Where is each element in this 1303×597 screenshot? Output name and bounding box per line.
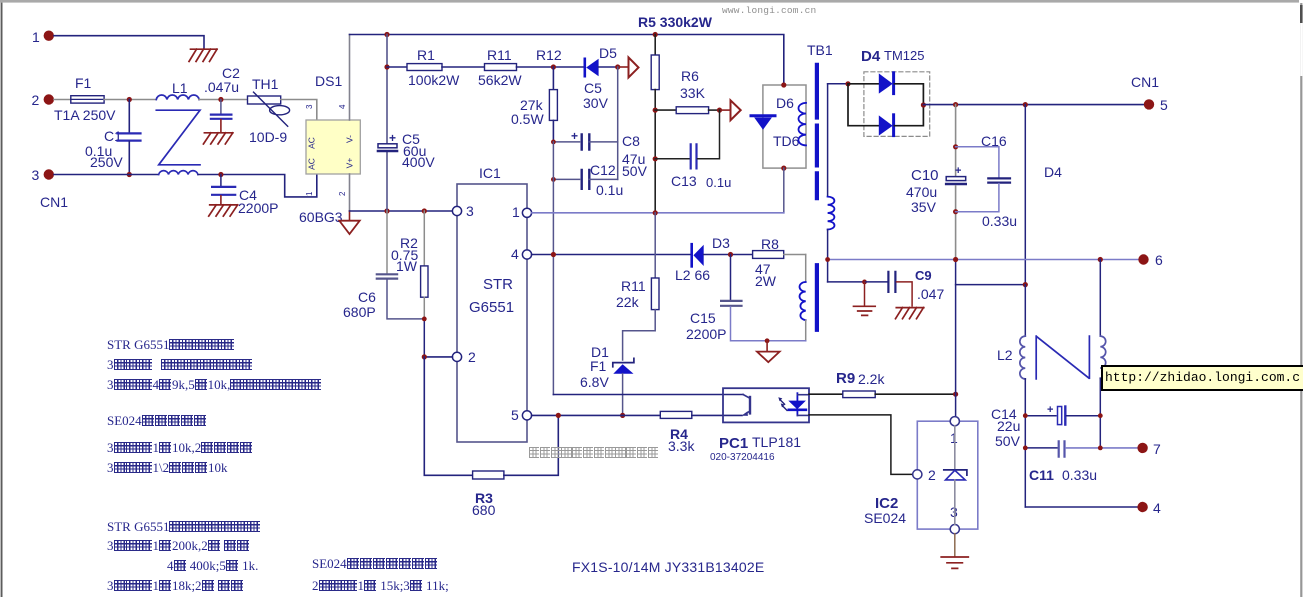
svg-text:D5: D5: [599, 45, 617, 61]
node junction pin4 row / R12 line: [551, 252, 556, 257]
svg-text:2200P: 2200P: [238, 200, 278, 216]
diode D4 bottom: [848, 84, 879, 126]
node junction R6 branch: [653, 108, 658, 113]
wire R1 to R11: [442, 66, 485, 68]
L2 core N symbol: [1036, 336, 1089, 379]
svg-text:R11: R11: [487, 47, 512, 63]
wire pin1 row of IC1: [532, 212, 784, 214]
note SE024 pin resistance title: [107, 413, 207, 429]
wire D5-C8-C12 right vertical: [617, 67, 619, 179]
node junction top rail / C5 line: [384, 32, 389, 37]
node junction D4 output: [921, 102, 926, 107]
svg-text:C5: C5: [584, 80, 602, 96]
wire pin4 row of IC1: [532, 254, 691, 256]
wire pin4 rail: [1025, 506, 1138, 508]
wire C12 row: [553, 178, 579, 180]
svg-text:IC1: IC1: [479, 165, 501, 181]
svg-text:30V: 30V: [583, 95, 609, 111]
svg-text:TM125: TM125: [884, 48, 924, 63]
node junction R9 out: [953, 392, 958, 397]
earth ground (pin1): [189, 49, 217, 61]
node CN1 pin 4: [1137, 502, 1147, 512]
shunt regulator IC2 SE024: [917, 421, 978, 529]
svg-text:2: 2: [32, 92, 40, 108]
node junction pin2/R3 line: [422, 354, 427, 359]
arrow net marker after R6: [720, 109, 730, 111]
wire D6 box bottom to pin1 row: [783, 168, 785, 213]
svg-text:7: 7: [1153, 441, 1161, 457]
svg-text:R11: R11: [621, 278, 646, 294]
light arrows of PC1: [780, 400, 787, 411]
model number text: [572, 559, 764, 575]
note line 5: [107, 440, 253, 456]
wire PC1 transistor top lead from R12 line: [553, 394, 743, 396]
svg-text:50V: 50V: [995, 433, 1021, 449]
wire R6 branch: [655, 109, 676, 111]
svg-text:680: 680: [472, 502, 496, 518]
node junction D4 input: [845, 81, 850, 86]
svg-text:35V: 35V: [911, 199, 937, 215]
svg-text:STR: STR: [483, 276, 513, 293]
note STR G6551 inline title: [107, 519, 260, 535]
ground triangle (DS1): [349, 211, 351, 221]
wire R12 line down to pin4 row and PC1: [552, 142, 554, 395]
capacitor C4: [220, 175, 222, 187]
svg-text:1: 1: [32, 29, 40, 45]
svg-text:3: 3: [32, 167, 40, 183]
wire C8 row: [553, 141, 579, 143]
wire F1 to L1: [104, 99, 156, 101]
note line 2: [107, 357, 252, 373]
svg-text:0.1u: 0.1u: [706, 175, 731, 190]
svg-text:V+: V+: [345, 158, 355, 169]
svg-text:L2: L2: [997, 347, 1013, 363]
wire top rail DS1 to D6: [350, 35, 784, 86]
capacitor C15: [730, 255, 732, 300]
svg-text:1W: 1W: [396, 258, 418, 274]
capacitor C11: [1025, 447, 1057, 449]
wire secondary top to D4: [828, 83, 848, 85]
svg-text:G6551: G6551: [469, 299, 514, 316]
svg-text:C6: C6: [358, 289, 376, 305]
capacitor C6: [386, 211, 388, 273]
svg-text:60BG3: 60BG3: [299, 209, 343, 225]
scrollbar right gap: [1300, 23, 1302, 76]
wire DC rail to CN1 pin5: [923, 104, 1144, 106]
node junction D1 / pin5 row: [620, 413, 625, 418]
svg-text:SE024: SE024: [864, 510, 906, 526]
snubber box D6/TD6: [763, 85, 806, 168]
scrollbar right thumb: [1300, 5, 1303, 23]
node junction D4 line top: [1023, 102, 1028, 107]
svg-text:AC: AC: [307, 158, 317, 170]
node junction C16 top: [953, 144, 958, 149]
wire pin2 of IC1: [424, 356, 452, 358]
ground bars (C9 left): [864, 282, 866, 305]
svg-text:D3: D3: [712, 235, 730, 251]
pin 3 of IC2: [950, 525, 959, 534]
svg-text:+: +: [955, 165, 961, 177]
svg-text:R9: R9: [836, 370, 855, 387]
node junction pin6/L2 right line: [1098, 257, 1103, 262]
TB1 secondary winding: [828, 197, 835, 230]
node CN1 pin 7: [1137, 443, 1147, 453]
node junction D6 box bottom: [781, 166, 786, 171]
note line 10: [107, 578, 244, 594]
wire DS1 pin2 down to ground rail: [349, 174, 351, 211]
svg-text:R5 330k2W: R5 330k2W: [638, 14, 713, 30]
svg-text:0.1u: 0.1u: [596, 182, 623, 198]
capacitor C9: [828, 281, 865, 283]
svg-text:D4: D4: [1044, 164, 1062, 180]
wire pin6 rail: [828, 259, 1139, 261]
node junction D6 box top: [781, 82, 786, 87]
svg-text:R6: R6: [681, 68, 699, 84]
svg-text:L2 66: L2 66: [675, 267, 710, 283]
wire L1 bottom to C4 and DS1 pin1: [198, 175, 316, 197]
watermark www.longi.com.cn: [722, 5, 816, 16]
svg-text:TLP181: TLP181: [752, 434, 801, 450]
resistor R4: [660, 411, 692, 418]
wire down to R3 row: [424, 357, 472, 475]
pin 5 of IC1: [522, 411, 531, 420]
company watermark gray: [529, 446, 659, 461]
wire TH1 to DS1 pin3: [281, 100, 317, 121]
pin 1 of IC2: [950, 417, 959, 426]
earth ground (C2): [203, 133, 232, 144]
node junction D3 out / C15: [728, 252, 733, 257]
svg-text:C8: C8: [622, 133, 640, 149]
arrow net marker after D5: [618, 66, 627, 68]
capacitor C10: [955, 105, 957, 176]
svg-text:+: +: [1047, 404, 1053, 416]
svg-text:22k: 22k: [616, 294, 640, 310]
svg-text:470u: 470u: [906, 184, 937, 200]
pin 2 of IC1: [452, 352, 461, 361]
optocoupler PC1 TLP181: [723, 388, 809, 422]
node junction C1 top: [127, 97, 132, 102]
wire R1 row: [387, 66, 407, 68]
svg-text:0.33u: 0.33u: [982, 213, 1017, 229]
svg-text:C15: C15: [690, 310, 716, 326]
svg-text:.047u: .047u: [204, 79, 239, 95]
wire C10 line down through pin6 rail to IC2: [955, 260, 957, 417]
svg-text:TD6: TD6: [773, 133, 800, 149]
svg-text:T1A 250V: T1A 250V: [54, 107, 116, 123]
svg-text:R8: R8: [761, 236, 779, 252]
svg-text:CN1: CN1: [1131, 74, 1159, 90]
note right line 2: [312, 578, 449, 594]
svg-text:2: 2: [338, 191, 347, 196]
node junction C10 top: [953, 102, 958, 107]
svg-text:680P: 680P: [343, 304, 376, 320]
TB1 lower primary winding: [805, 255, 807, 283]
node junction R12 top: [551, 64, 556, 69]
ground triangle (C15): [765, 338, 770, 343]
svg-text:22u: 22u: [997, 418, 1020, 434]
node junction C2: [218, 97, 223, 102]
wire R11 to D5: [517, 66, 585, 68]
svg-text:R12: R12: [536, 47, 562, 63]
svg-text:V-: V-: [345, 135, 355, 143]
node junction R1 row left: [384, 64, 389, 69]
note line 6: [107, 460, 228, 476]
note line 3: [107, 377, 321, 393]
svg-text:C11: C11: [1029, 467, 1054, 483]
resistor R3: [473, 471, 504, 479]
note STR G6551 pin resistance title: [107, 337, 234, 353]
node junction R2 top: [422, 208, 427, 213]
svg-text:F1: F1: [75, 75, 92, 91]
svg-text:0.33u: 0.33u: [1062, 467, 1097, 483]
earth ground (C9 right): [896, 308, 924, 319]
wire L1 to C2 junction: [199, 99, 248, 101]
svg-text:5: 5: [511, 407, 519, 423]
node junction D5 out: [615, 64, 620, 69]
note SE024 inline title right: [312, 556, 438, 572]
svg-text:CN1: CN1: [40, 194, 68, 210]
zener TD6 on box left edge: [751, 114, 775, 117]
node junction pin1 row / R5 R11: [653, 210, 658, 215]
TB1 core: [815, 65, 819, 330]
svg-text:6: 6: [1155, 252, 1163, 268]
svg-text:10D-9: 10D-9: [249, 129, 287, 145]
svg-text:1: 1: [305, 191, 314, 196]
svg-text:F1: F1: [590, 358, 607, 374]
svg-text:4: 4: [511, 246, 519, 262]
capacitor C12: [582, 170, 590, 189]
wire ground rail to IC1 pin3: [350, 210, 453, 212]
capacitor C13: [655, 158, 689, 160]
zener inside IC2: [954, 426, 956, 470]
frame top bar: [0, 0, 1299, 3]
svg-text:+: +: [571, 129, 578, 143]
note line 9: [167, 558, 258, 574]
svg-text:33K: 33K: [680, 85, 706, 101]
svg-text:D4: D4: [861, 48, 881, 65]
svg-text:100k2W: 100k2W: [408, 72, 460, 88]
node junction C1 bottom: [127, 172, 132, 177]
svg-text:DS1: DS1: [315, 73, 342, 89]
svg-text:2.2k: 2.2k: [858, 371, 885, 387]
phototransistor of PC1: [743, 395, 750, 399]
pin 2 of IC2: [913, 470, 922, 479]
wire PC1 to R9: [809, 393, 843, 395]
wire DS1 pin4 up to top rail: [349, 35, 351, 121]
node junction R6 out: [717, 108, 722, 113]
svg-text:R1: R1: [417, 47, 435, 63]
svg-text:6.8V: 6.8V: [580, 374, 609, 390]
frame left bar: [1, 3, 3, 597]
svg-text:5: 5: [1160, 97, 1168, 113]
wire pin5 row of IC1: [532, 414, 661, 416]
resistor R5: [654, 35, 656, 56]
wire D4 vertical line: [1024, 105, 1026, 285]
svg-text:3: 3: [466, 203, 474, 219]
svg-text:4: 4: [1153, 500, 1161, 516]
svg-text:0.5W: 0.5W: [511, 111, 544, 127]
svg-text:.047: .047: [917, 286, 944, 302]
node junction pin5 row / R3: [556, 413, 561, 418]
svg-text:2: 2: [928, 467, 936, 483]
url tooltip box: [1101, 365, 1303, 391]
svg-text:1: 1: [512, 204, 520, 220]
svg-text:250V: 250V: [90, 154, 123, 170]
svg-text:3: 3: [305, 104, 314, 109]
svg-text:AC: AC: [307, 137, 317, 149]
svg-text:C10: C10: [911, 167, 939, 184]
node junction pin6/C10 line: [953, 257, 958, 262]
node junction top rail / R5: [653, 32, 658, 37]
pin 1 of IC1: [522, 208, 531, 217]
earth ground (C4): [209, 205, 238, 216]
node CN1 pin 6: [1138, 254, 1148, 264]
svg-text:+: +: [389, 131, 396, 145]
svg-text:400V: 400V: [402, 154, 435, 170]
svg-text:C13: C13: [671, 173, 697, 189]
wire branch to L2 left line: [956, 284, 1026, 286]
node junction C13 branch: [653, 156, 658, 161]
node junction C5 bottom: [384, 208, 389, 213]
svg-text:C9: C9: [915, 268, 932, 283]
note line 8: [107, 538, 250, 554]
LED of PC1: [796, 393, 798, 400]
svg-text:TH1: TH1: [252, 76, 279, 92]
wire pin3 to L1: [54, 174, 158, 176]
node junction C6/R2: [422, 317, 427, 322]
pin 3 of IC1: [452, 206, 461, 215]
TB1 primary winding (on D6 box right edge): [798, 103, 806, 145]
wire C5 vertical line: [386, 35, 388, 144]
pin 4 of IC1: [522, 250, 531, 259]
svg-text:2: 2: [468, 349, 476, 365]
diode D4 top: [848, 83, 879, 85]
node junction L2 left top: [1023, 282, 1028, 287]
svg-text:56k2W: 56k2W: [478, 72, 522, 88]
wire pin1 to ground: [54, 36, 204, 49]
node junction C4: [218, 172, 223, 177]
svg-text:2200P: 2200P: [686, 326, 726, 342]
svg-text:TB1: TB1: [807, 42, 833, 58]
scrollbar right track: [1300, 3, 1302, 597]
svg-text:C12: C12: [590, 162, 616, 178]
svg-text:2W: 2W: [755, 273, 777, 289]
wire pin2 to F1: [54, 99, 71, 101]
svg-text:PC1: PC1: [719, 435, 748, 452]
wire PC1 bottom to IC2 pin2: [809, 415, 913, 475]
svg-text:4: 4: [338, 104, 347, 109]
svg-text:D6: D6: [776, 95, 794, 111]
svg-text:020-37204416: 020-37204416: [710, 452, 775, 463]
svg-text:3.3k: 3.3k: [668, 438, 695, 454]
svg-text:L1: L1: [172, 80, 188, 96]
node junction C16 bottom: [953, 209, 958, 214]
TB1 secondary wire top: [827, 84, 829, 197]
ground bars (IC2 pin3): [954, 534, 956, 556]
svg-text:50V: 50V: [622, 163, 648, 179]
